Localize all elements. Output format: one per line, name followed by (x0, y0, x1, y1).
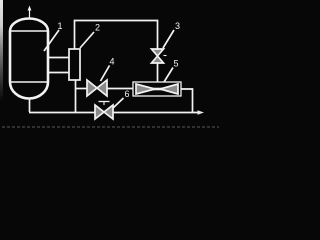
svg-text:5: 5 (174, 59, 179, 69)
wire vessel to exchanger lower (48, 72, 69, 74)
wire valve 4 to flowmeter (107, 88, 133, 90)
valve 6 (globe valve with stem) (95, 102, 113, 120)
leader line label 3 (163, 30, 174, 48)
vessel bottom outlet wire (29, 99, 31, 113)
vessel V1 (tank with domed heads) (10, 19, 48, 99)
leader line label 6 (113, 98, 124, 108)
wire valve 3 to flowmeter top (157, 63, 159, 82)
svg-text:6: 6 (125, 89, 130, 99)
svg-text:2: 2 (95, 23, 100, 33)
leader line label 2 (80, 32, 94, 48)
scan frame: left white bar fading downward (0, 0, 3, 100)
svg-text:3: 3 (175, 21, 180, 31)
scan frame: faint bottom dashed line (2, 126, 219, 128)
wire vessel to exchanger upper (48, 57, 69, 59)
leader line label 1 (44, 30, 59, 51)
bottom discharge wire right with flow arrow (113, 110, 204, 114)
wire tee branch to valve 4 (76, 88, 88, 90)
svg-text:4: 4 (110, 57, 115, 67)
wire exchanger top to overhead line (75, 21, 158, 50)
vent arrow on vessel top (28, 6, 32, 20)
leader line label 5 (164, 68, 173, 83)
valve 3 (vertical bowtie) (152, 49, 167, 63)
heat exchanger E1 (component 2 rectangle) (69, 49, 80, 80)
wire flowmeter outlet to bottom line (181, 89, 193, 112)
bottom discharge wire left (29, 112, 95, 114)
svg-text:1: 1 (58, 21, 63, 31)
leader line label 4 (101, 66, 110, 82)
wire exchanger bottom down to bottom line (tee) (75, 80, 77, 113)
flowmeter FM1 (component 5) (133, 82, 181, 96)
valve 4 (gate valve bowtie) (87, 80, 107, 96)
